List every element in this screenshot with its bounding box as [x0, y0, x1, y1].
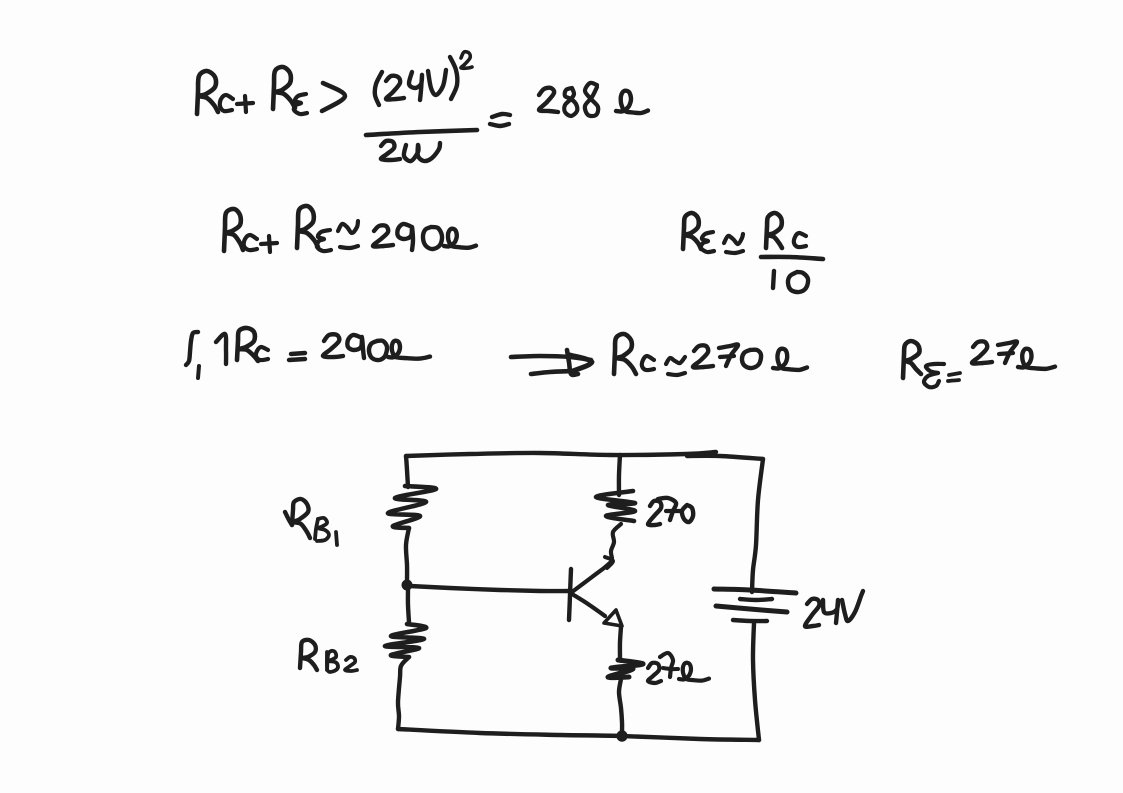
label RB1	[285, 499, 337, 545]
wire left mid	[406, 528, 409, 581]
equation line 3: 1,1 Rc = 290 ohm	[186, 328, 430, 378]
wire left upper	[406, 456, 408, 487]
wire emitter bottom	[619, 679, 622, 733]
label 270 value	[648, 498, 693, 525]
wire top	[406, 452, 763, 459]
wire right upper	[752, 459, 763, 592]
equation line 3 middle: Rc ~ 270 ohm	[614, 334, 807, 375]
equation line 3 right: RE = 27 ohm	[903, 341, 1055, 387]
node base junction	[402, 580, 412, 590]
wire collector tail	[611, 524, 621, 558]
label RB2	[300, 640, 357, 672]
node emitter bottom junction	[617, 731, 627, 741]
label 27 ohm value	[648, 653, 709, 683]
wire emitter	[620, 627, 621, 658]
wire collector branch top	[619, 455, 620, 495]
label 24V	[805, 591, 863, 627]
wire bottom	[398, 729, 759, 740]
implies arrow	[511, 350, 592, 375]
resistor RC 270	[596, 491, 635, 521]
equation line 2 right: RE ~ Rc/10	[683, 213, 823, 292]
wire left lower mid	[408, 589, 409, 622]
equation line 1: Rc+RE > (24V)^2/2W = 288 ohm	[197, 52, 648, 161]
wire base	[410, 586, 568, 591]
equation line 2: Rc+RE ~ 290 ohm	[224, 206, 476, 252]
battery V1 24V	[714, 589, 796, 621]
resistor RE 27	[608, 660, 643, 678]
resistor RB1	[388, 486, 436, 528]
transistor Q1	[569, 557, 622, 626]
resistor RB2	[385, 624, 426, 657]
wire left bottom	[398, 658, 408, 729]
wire right lower	[753, 623, 759, 740]
